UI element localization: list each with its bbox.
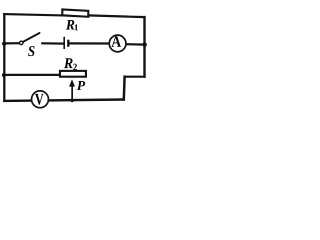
node junction left-switch (2, 41, 6, 45)
switch S pivot (19, 41, 23, 45)
ammeter A letter (111, 36, 121, 47)
wire ammeter to right junction (126, 43, 145, 46)
wire bottom (4, 100, 124, 101)
ammeter A circle (109, 35, 126, 52)
wire top-left segment (4, 14, 62, 15)
label P (77, 81, 85, 90)
wire switch to battery (42, 42, 63, 44)
rheostat slider arrow (69, 79, 75, 100)
label S (28, 46, 34, 56)
switch S lever (23, 33, 40, 42)
wire right vertical (143, 17, 145, 77)
voltmeter V letter (35, 94, 44, 105)
label R2 subscript 2 (73, 64, 77, 71)
node junction slider-bottom (70, 99, 73, 102)
label R1 letter R (66, 20, 75, 30)
label R2 letter R (64, 58, 73, 68)
wire step vertical (123, 77, 126, 100)
wire top-right segment (88, 15, 145, 17)
wire battery to ammeter (70, 42, 112, 44)
battery short plate (67, 40, 69, 47)
resistor R1 box (62, 9, 88, 16)
node junction ammeter-right (143, 42, 147, 46)
wire left vertical (3, 14, 5, 101)
wire step horizontal (125, 76, 145, 78)
node junction left-rheostat (2, 73, 6, 77)
resistor R2 box (60, 71, 86, 77)
label R1 subscript 1 (75, 24, 78, 30)
wire switch lead (4, 42, 19, 44)
voltmeter V circle (32, 91, 49, 108)
wire rheostat lead (4, 74, 60, 76)
battery long plate (63, 37, 65, 49)
